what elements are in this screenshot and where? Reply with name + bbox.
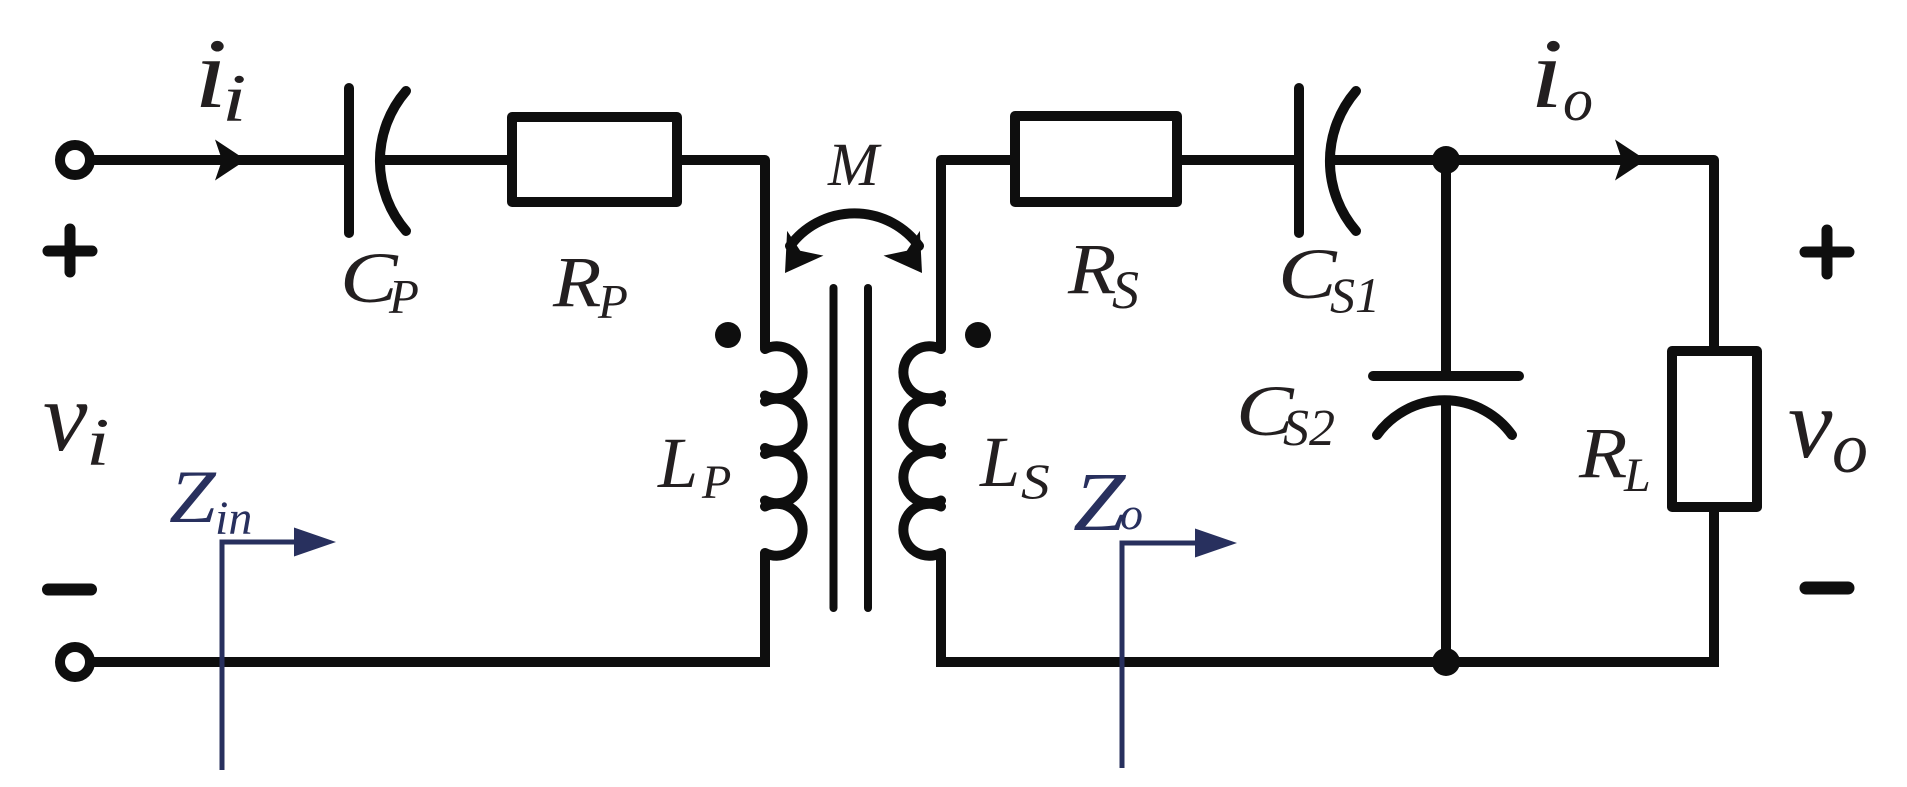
wire C_P to R_P (379, 155, 509, 165)
inductor L_P winding (765, 346, 803, 556)
M arrowhead left (767, 231, 824, 286)
capacitor C_P flat plate (344, 88, 354, 233)
svg-text:P: P (388, 269, 419, 324)
plus sign right (1805, 230, 1849, 274)
svg-text:S: S (1021, 453, 1050, 509)
wire L_P bottom to rail (760, 553, 770, 667)
wire R_L to bottom rail (1709, 507, 1719, 667)
svg-text:S: S (1112, 260, 1139, 320)
mutual inductance M arc (790, 213, 919, 246)
wire C_S2 to bottom rail (1441, 400, 1451, 664)
svg-text:Z: Z (1073, 457, 1127, 549)
input current arrow (215, 140, 246, 181)
capacitor C_S2 curved plate (1377, 400, 1512, 435)
junction node bottom (1432, 648, 1460, 676)
svg-text:S1: S1 (1330, 267, 1380, 323)
svg-text:P: P (597, 274, 628, 329)
output current arrow (1615, 140, 1646, 181)
wire L_S top to R_S (941, 160, 1012, 348)
capacitor C_S2 flat plate (1373, 371, 1519, 381)
wire L_S bottom to rail (936, 553, 946, 667)
wire input to C_P (91, 155, 346, 165)
svg-text:R: R (1067, 230, 1116, 309)
svg-text:R: R (1578, 414, 1627, 493)
svg-text:P: P (701, 456, 731, 509)
transformer core line left (830, 288, 838, 608)
svg-text:M: M (827, 132, 882, 199)
svg-text:v: v (1788, 368, 1833, 479)
svg-text:i: i (1530, 18, 1563, 128)
M arrowhead right (884, 231, 941, 286)
svg-text:R: R (552, 243, 601, 322)
capacitor C_P curved plate (380, 91, 406, 231)
svg-text:v: v (43, 361, 88, 472)
minus sign right (1806, 582, 1848, 595)
svg-text:S2: S2 (1283, 400, 1335, 457)
svg-text:o: o (1563, 67, 1593, 133)
capacitor C_S1 flat plate (1294, 88, 1304, 233)
wire R_S to C_S1 (1175, 155, 1296, 165)
input terminal bottom-left (60, 647, 90, 677)
wire node A down to C_S2 (1441, 160, 1451, 371)
Z_o arrowhead (1195, 529, 1237, 558)
wire node A to R_L corner (1446, 160, 1714, 351)
svg-text:in: in (215, 492, 252, 545)
svg-text:Z: Z (169, 456, 216, 539)
bottom rail secondary (941, 657, 1714, 667)
polarity dot L_S (965, 322, 991, 348)
Z_in marker lines (222, 542, 300, 770)
wire C_S1 to node A (1329, 155, 1446, 165)
svg-text:i: i (86, 404, 110, 480)
svg-text:L: L (1623, 449, 1651, 502)
capacitor C_S1 curved plate (1330, 91, 1356, 231)
polarity dot L_P (715, 322, 741, 348)
wire R_P to L_P top (680, 160, 765, 348)
input terminal top-left (60, 145, 90, 175)
resistor R_P (512, 117, 677, 202)
load resistor R_L (1672, 351, 1757, 507)
plus sign left (48, 229, 92, 272)
svg-text:o: o (1832, 408, 1868, 488)
transformer core line right (864, 288, 872, 608)
svg-text:o: o (1120, 488, 1143, 539)
Z_o marker lines (1122, 543, 1200, 768)
junction node A (1432, 146, 1460, 174)
svg-text:i: i (222, 62, 247, 137)
bottom rail primary (91, 657, 765, 667)
svg-text:L: L (657, 423, 698, 503)
svg-text:L: L (979, 422, 1020, 502)
inductor L_S winding (903, 346, 941, 556)
minus sign left (48, 584, 91, 596)
resistor R_S (1015, 116, 1177, 202)
Z_in arrowhead (294, 528, 336, 557)
